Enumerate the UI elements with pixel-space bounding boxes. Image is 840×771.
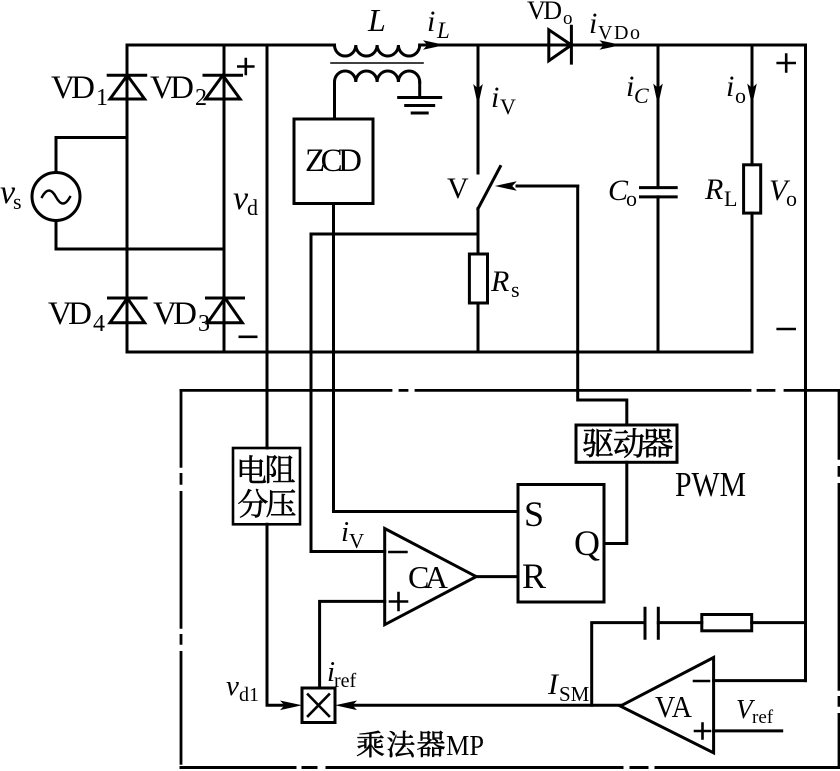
wire top rail left segment (127, 44, 335, 47)
svg-text:ref: ref (334, 670, 357, 692)
svg-text:VA: VA (655, 689, 693, 724)
svg-text:L: L (436, 18, 450, 43)
inductor L secondary winding (335, 71, 420, 82)
minus sign vd bridge (240, 335, 256, 338)
arrow iV (473, 84, 483, 106)
diode VDo (549, 26, 572, 63)
plus sign vd bridge (238, 59, 253, 74)
wire switch to Rs (477, 209, 480, 254)
svg-text:ZCD: ZCD (305, 143, 362, 179)
arrow iC (653, 84, 663, 106)
svg-text:o: o (626, 186, 637, 211)
wire Rs to bottom rail (477, 303, 480, 352)
op-amp CA triangle (385, 529, 477, 625)
wire iV sense from switch to CA minus input (311, 234, 478, 552)
wire VA feedback network (592, 623, 806, 706)
diode VD3 (207, 298, 244, 323)
control block dash-dot border bottom edge (181, 766, 840, 769)
svg-text:Q: Q (574, 523, 600, 563)
svg-text:s: s (13, 189, 22, 214)
svg-text:VD: VD (48, 296, 92, 332)
svg-text:2: 2 (195, 85, 207, 111)
block driver box (576, 425, 677, 462)
wire output right edge Vo feedback line (804, 45, 807, 681)
multiplier MP cross (308, 695, 329, 717)
svg-text:o: o (786, 186, 797, 211)
wire secondary right lead (418, 82, 421, 98)
svg-text:R: R (704, 173, 723, 206)
svg-text:L: L (367, 2, 386, 38)
diode VD4 (109, 298, 147, 323)
label dianzu fenya divider text (240, 455, 266, 483)
switch V blade (478, 167, 500, 209)
svg-text:d1: d1 (239, 684, 259, 706)
wire vs bottom lead (56, 221, 224, 250)
resistor feedback box (702, 615, 752, 631)
wire vs top lead (56, 138, 127, 173)
svg-text:ref: ref (752, 707, 774, 728)
wire top rail right segment (420, 44, 806, 47)
op-amp VA triangle (620, 658, 713, 753)
control block dash-dot border top edge (181, 389, 840, 392)
svg-text:s: s (511, 277, 520, 302)
svg-text:SM: SM (559, 682, 590, 706)
svg-text:o: o (563, 8, 573, 29)
arrow vd1 into multiplier (280, 701, 302, 711)
label chengfaqi MP text (357, 731, 384, 758)
wire drive line down to driver box (578, 186, 627, 425)
svg-text:VD: VD (153, 296, 197, 332)
wire ZCD output to S input (334, 204, 519, 512)
wire drive line to switch (517, 185, 578, 188)
svg-text:V: V (447, 172, 469, 205)
svg-text:i: i (726, 70, 734, 103)
wire VA minus input from Vo line (714, 679, 806, 682)
svg-text:4: 4 (93, 311, 105, 337)
capacitor Co plates (641, 188, 677, 197)
op-amp VA minus sign (694, 680, 709, 683)
svg-text:MP: MP (446, 731, 484, 762)
svg-text:i: i (589, 7, 597, 40)
svg-text:o: o (735, 83, 746, 108)
block SR flip-flop box (518, 485, 604, 603)
inductor L main winding (335, 45, 420, 56)
svg-text:VD: VD (51, 70, 95, 106)
label driver qudongqi text (583, 429, 612, 457)
control block dash-dot border left edge (180, 390, 183, 767)
minus sign Vo (778, 328, 795, 331)
diode VD2 (204, 75, 242, 99)
svg-text:VDo: VDo (598, 22, 640, 44)
svg-text:i: i (427, 5, 435, 38)
wire Q output to driver (604, 462, 627, 543)
svg-text:V: V (349, 529, 364, 553)
wire vd sense line down to multiplier (267, 45, 284, 705)
svg-text:1: 1 (96, 85, 108, 111)
svg-text:S: S (524, 494, 544, 534)
svg-text:VD: VD (150, 70, 194, 106)
wire CA output to R input (476, 575, 518, 578)
wire bridge left column (126, 45, 129, 352)
op-amp VA plus sign (695, 724, 710, 739)
multiplier MP box (302, 688, 335, 723)
capacitor Co branch wires (657, 45, 660, 352)
wire ISM line VA output to multiplier (353, 704, 620, 707)
svg-text:VD: VD (527, 0, 562, 25)
source vs circle (32, 173, 80, 221)
resistor RL branch wires (751, 45, 754, 352)
block resistor divider box (233, 448, 300, 524)
svg-text:R: R (522, 556, 546, 596)
wire bottom rail (127, 351, 752, 354)
resistor Rs box (469, 254, 487, 303)
block ZCD box (294, 119, 373, 204)
svg-text:PWM: PWM (675, 465, 746, 504)
arrow io (747, 84, 757, 106)
svg-text:d: d (247, 195, 258, 220)
svg-text:V: V (500, 94, 516, 119)
op-amp CA minus sign (389, 551, 406, 554)
svg-text:L: L (724, 186, 737, 211)
control block dash-dot border right edge (838, 390, 840, 767)
svg-text:i: i (341, 516, 349, 548)
svg-text:i: i (491, 81, 499, 114)
diode VD1 (108, 75, 146, 99)
plus sign Vo (778, 55, 795, 72)
arrow iL (423, 40, 445, 50)
svg-text:v: v (226, 670, 239, 702)
wire multiplier output to CA plus input (320, 601, 385, 688)
svg-text:CA: CA (408, 559, 448, 595)
ground (399, 98, 441, 114)
source vs sine symbol (42, 191, 70, 204)
inductor L core line (331, 62, 423, 64)
arrow drive into switch (495, 181, 517, 191)
wire switch top lead (477, 45, 480, 173)
arrow ISM into multiplier (335, 701, 357, 711)
wire aux winding to ZCD (333, 82, 336, 119)
svg-text:C: C (634, 83, 649, 108)
svg-text:R: R (490, 265, 509, 298)
wire bridge right column (223, 45, 226, 352)
capacitor feedback plates (645, 608, 658, 638)
svg-text:3: 3 (198, 311, 210, 337)
resistor RL box (744, 165, 761, 213)
arrow iVDo (599, 40, 621, 50)
op-amp CA plus sign (390, 593, 407, 610)
wire VA plus input Vref (714, 729, 782, 732)
